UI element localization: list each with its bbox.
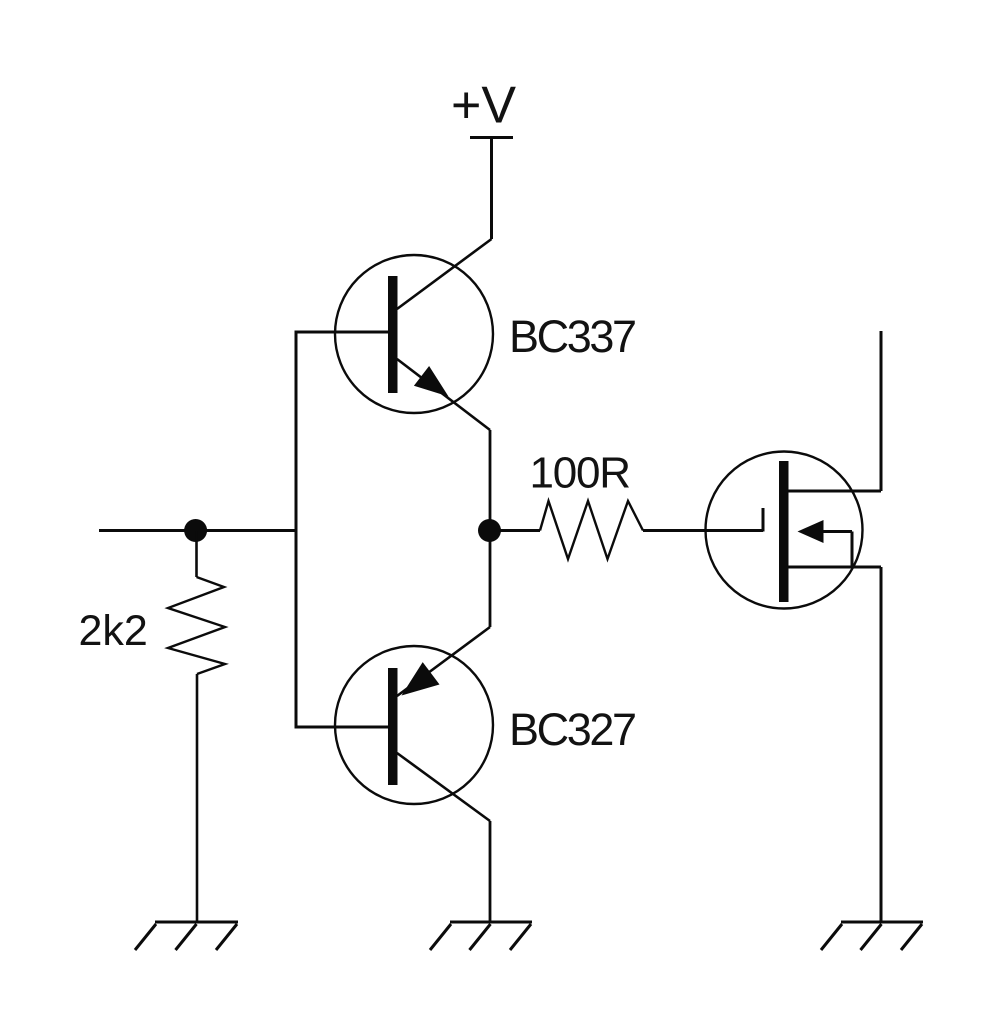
transistor Q2 BC327 bbox=[335, 646, 493, 821]
transistor Q1 BC337 bbox=[335, 255, 493, 430]
wire collector of Q2 to ground (vertical) bbox=[489, 821, 492, 922]
svg-text:BC337: BC337 bbox=[509, 311, 635, 362]
ground right bbox=[821, 922, 923, 950]
ground left bbox=[135, 922, 238, 950]
wire base bus vertical bbox=[295, 331, 298, 729]
wire input left bbox=[99, 529, 296, 532]
node output junction bbox=[478, 519, 501, 542]
power rail bar bbox=[470, 136, 513, 139]
wire collector diagonal to Q1 bbox=[397, 239, 492, 309]
wire base of Q1 bbox=[296, 331, 388, 334]
svg-text:+V: +V bbox=[451, 77, 516, 135]
wire base of Q2 bbox=[296, 726, 388, 729]
resistor R2 100R zigzag bbox=[540, 501, 643, 559]
ground middle bbox=[430, 922, 532, 950]
wire resistor R1 to ground bbox=[196, 674, 199, 922]
wire emitter diagonal to Q2 bbox=[397, 627, 490, 696]
wire node to resistor R1 bbox=[195, 531, 198, 578]
wire collector of Q1 to +V (vertical) bbox=[490, 138, 493, 240]
wire source of Q3 to ground (vertical down) bbox=[880, 567, 883, 922]
wire emitter bus vertical (Q1 emitter to Q2 emitter) bbox=[489, 430, 492, 627]
svg-text:2k2: 2k2 bbox=[79, 607, 148, 655]
svg-text:BC327: BC327 bbox=[509, 704, 635, 755]
resistor R1 2k2 zigzag bbox=[168, 577, 225, 674]
wire resistor R2 to gate of Q3 bbox=[643, 529, 763, 532]
node input junction bbox=[184, 519, 207, 542]
wire node to resistor R2 bbox=[490, 529, 541, 532]
wire drain of Q3 (vertical up) bbox=[880, 331, 883, 491]
transistor Q3 MOSFET bbox=[706, 452, 882, 609]
svg-text:100R: 100R bbox=[530, 449, 630, 498]
